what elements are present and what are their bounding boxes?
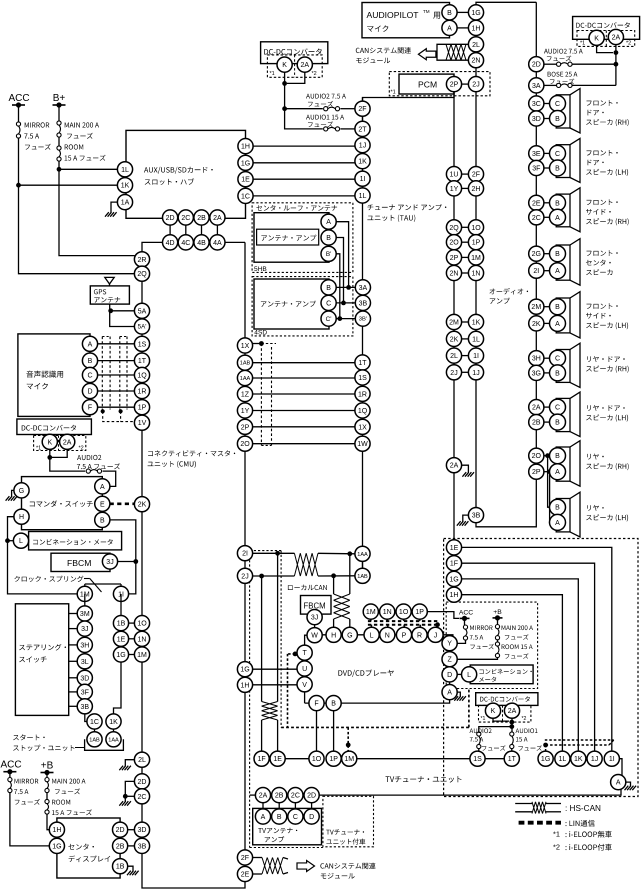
speaker pin C: [550, 145, 566, 161]
connector 1AA (TAU CAN): [355, 546, 370, 561]
wire pair 3F-B: [544, 167, 551, 169]
connector 1L (amp): [468, 331, 483, 346]
svg-text:C: C: [555, 151, 560, 158]
svg-text:2F: 2F: [358, 106, 366, 113]
svg-text:1E: 1E: [241, 177, 250, 184]
svg-text:2N: 2N: [450, 271, 459, 278]
svg-text:1O: 1O: [137, 621, 147, 628]
wire K/2A to fuse rail: [285, 72, 323, 129]
connector 1G (TV left): [237, 662, 252, 677]
pin T (DVD): [297, 645, 312, 660]
label local CAN: [288, 585, 327, 591]
FBCM box (local): [301, 596, 332, 615]
svg-text:1K: 1K: [358, 159, 367, 166]
connector 2P (CMU): [237, 419, 252, 434]
svg-text:A: A: [88, 341, 93, 348]
label TV tuner option: [326, 829, 364, 834]
ground at center display 1B: [127, 871, 139, 876]
wire CAN drop to 1E: [277, 553, 279, 701]
svg-text:1Q: 1Q: [137, 373, 147, 380]
svg-text:1K: 1K: [121, 183, 130, 190]
svg-text:3B': 3B': [359, 317, 367, 323]
pin L (meter right): [462, 667, 477, 682]
label clock spring: [14, 576, 83, 582]
svg-text:1AB: 1AB: [240, 361, 251, 367]
DC-DC converter box (bottom right): [476, 693, 538, 706]
svg-text:3A: 3A: [359, 285, 368, 292]
svg-text:1Y: 1Y: [450, 186, 459, 193]
svg-text:3J: 3J: [81, 626, 88, 633]
svg-text:4A: 4A: [213, 240, 222, 247]
wire 2P-1X: [252, 426, 355, 428]
label combination meter (left): [33, 539, 113, 545]
svg-text:Y: Y: [447, 641, 452, 648]
center roof antenna dashed box (5HB): [252, 203, 353, 273]
speaker pin A: [550, 464, 566, 480]
svg-text:1W: 1W: [357, 441, 368, 448]
label CAN system module (bottom): [320, 863, 375, 870]
connector 2I (CMU): [237, 546, 252, 561]
connector 1B: [113, 616, 128, 631]
svg-text:1G: 1G: [240, 667, 249, 674]
svg-text:1N: 1N: [472, 271, 481, 278]
svg-text:1Z: 1Z: [241, 392, 250, 399]
svg-text:3H: 3H: [80, 642, 89, 649]
pin C' (4SD): [321, 311, 336, 326]
svg-text:1H: 1H: [241, 682, 250, 689]
wire 1P to ACC (DVD): [427, 612, 459, 619]
wire B to 1I via FBCM junction: [110, 520, 136, 594]
wire A to ground (br): [626, 782, 631, 786]
svg-text:R: R: [417, 632, 422, 639]
pin A (5HB): [321, 214, 336, 229]
connector 1T: [134, 353, 149, 368]
fuse MAIN 200A (bottom): [45, 778, 49, 782]
svg-text:1I: 1I: [360, 176, 366, 183]
wire B-1G: [457, 11, 469, 13]
mic pin A: [82, 336, 97, 351]
wire 1Y-1Q: [252, 410, 355, 412]
svg-text:1U: 1U: [450, 172, 459, 179]
svg-text:F: F: [88, 405, 92, 412]
connector 2N (top): [468, 53, 483, 68]
wire 2E can: [252, 873, 262, 875]
TAU right rail: [453, 91, 455, 472]
wire 1G to 1K: [114, 662, 122, 715]
wire 2A fuse branches: [511, 718, 513, 732]
pin L: [13, 533, 28, 548]
ground at bottom right A: [625, 786, 637, 791]
ground at amp 3B: [457, 521, 469, 526]
stub 3B: [69, 705, 78, 707]
connector 1G (TV): [446, 571, 461, 586]
wire ACC fuse to Y: [464, 618, 466, 625]
connector 2O (CMU): [237, 436, 252, 451]
svg-text:3L: 3L: [81, 659, 89, 666]
fuse AUDIO2 (right): [557, 62, 561, 66]
label フロント・ センタ・ スピーカ: [587, 250, 618, 256]
svg-text:1J: 1J: [591, 756, 598, 763]
connector 2R: [134, 252, 149, 267]
label AUX/USB/SD hub: [144, 167, 213, 174]
svg-text:2D: 2D: [307, 793, 316, 800]
pin B (5HB): [321, 230, 336, 245]
svg-text:D: D: [447, 672, 452, 679]
connector 2B: [194, 210, 209, 225]
svg-text:*1: *1: [391, 90, 396, 96]
wire pair 2C-A: [544, 216, 551, 218]
shield around mic wires: [101, 337, 103, 410]
wire rear speaker bridge: [544, 455, 551, 457]
svg-text:2F: 2F: [241, 855, 249, 862]
wire 2J-1J pair: [461, 371, 468, 373]
connector 4B: [194, 235, 209, 250]
mic pin D: [82, 383, 97, 398]
wire pair 3E-C: [544, 152, 551, 154]
label DVD/CD player: [338, 670, 393, 677]
speaker pin B (rear LH): [550, 499, 566, 515]
connector 1N (DVD LIN): [380, 604, 395, 619]
dashed option bottom edge: [250, 847, 323, 849]
connector 2K: [134, 497, 149, 512]
antenna amp label box: [257, 229, 319, 245]
wire mic C-1Q: [97, 374, 134, 376]
svg-text:4SD: 4SD: [254, 330, 267, 337]
speaker pin C: [550, 96, 566, 112]
svg-text:+B: +B: [41, 761, 54, 772]
svg-text:2R: 2R: [138, 257, 147, 264]
wire G to ground: [12, 490, 15, 496]
svg-text:4C: 4C: [181, 240, 190, 247]
pin A (DVD): [442, 685, 457, 700]
svg-text:1N: 1N: [383, 609, 392, 616]
pin H: [14, 509, 29, 524]
wire 1G-U: [252, 668, 297, 670]
svg-text:1E: 1E: [117, 636, 126, 643]
zigzag local CAN: [294, 553, 318, 576]
svg-text:C: C: [555, 405, 560, 412]
speaker pin C: [550, 399, 566, 415]
ground at 2D/2C: [119, 801, 131, 806]
connector 2P (TAU right): [446, 250, 461, 265]
svg-text:1M: 1M: [366, 609, 376, 616]
svg-text:1V: 1V: [138, 420, 147, 427]
connector 1T (TAU): [355, 355, 370, 370]
wire 1E-1N: [128, 638, 134, 640]
shield dashed box (antenna lead): [260, 344, 262, 446]
wire 1H-V: [252, 684, 297, 686]
wire B+ vertical feed: [58, 105, 60, 121]
AUX/USB/SD card slot hub box: [126, 130, 246, 218]
connector 2P (PCM): [446, 77, 461, 92]
wire 2P-1M pair: [461, 256, 468, 258]
dashed option box K/2A (bottom right): [479, 705, 531, 722]
connector 1P: [134, 400, 149, 415]
zigzag CAN vertical pair: [334, 594, 350, 619]
connector 1I (clock spring): [113, 586, 128, 601]
wire D-L pair: [457, 673, 462, 675]
svg-text:1G: 1G: [116, 652, 125, 659]
TV tuner option dashed box: [323, 796, 374, 847]
pin 2D (center display): [113, 822, 128, 837]
pin C (TV ant): [288, 809, 303, 824]
connector 1X (TAU): [355, 419, 370, 434]
svg-text:1I: 1I: [473, 353, 479, 360]
wire mic D-1R: [97, 390, 134, 392]
svg-text:C: C: [293, 814, 298, 821]
pin F (DVD): [309, 696, 324, 711]
TV tuner dashed box: [444, 539, 638, 797]
svg-text:1B: 1B: [116, 864, 125, 871]
svg-text:B: B: [277, 814, 282, 821]
label DC-DC converter (TAU): [264, 48, 322, 54]
ground at commander G: [6, 496, 18, 501]
DC-DC converter box (left): [17, 419, 92, 435]
wire F to 1O: [316, 710, 318, 751]
LIN dashed bus above L..R: [368, 620, 438, 622]
pin B' (5HB): [321, 246, 336, 261]
svg-text:*1: *1: [270, 71, 275, 77]
svg-text:: HS-CAN: : HS-CAN: [565, 804, 601, 813]
wire 1K from AUX 1G: [253, 162, 355, 164]
connector 1L (TV bottom): [555, 751, 570, 766]
commander switch box: [22, 477, 103, 530]
connector 2A (TAU DC-DC): [297, 57, 312, 72]
wire 2C-4C: [185, 225, 187, 235]
dashed option box K/2A (top right): [577, 31, 635, 47]
wire B+ to 1L: [57, 167, 62, 172]
svg-text:2K: 2K: [532, 321, 541, 328]
connector 1Y (CMU): [237, 403, 252, 418]
pin B (4SD): [321, 280, 336, 295]
connector 1C: [238, 188, 253, 203]
speaker pin C: [550, 350, 566, 366]
svg-text:W: W: [311, 633, 318, 640]
stub 3F: [69, 691, 78, 693]
svg-text:2D: 2D: [138, 779, 147, 786]
svg-text:2L: 2L: [450, 353, 458, 360]
svg-text:1H: 1H: [450, 592, 459, 599]
connector 1T (TV bottom): [504, 751, 519, 766]
svg-text:3B: 3B: [138, 843, 147, 850]
fuse AUDIO1 15A (TAU): [324, 127, 328, 131]
wire 1AA-1AB link: [362, 561, 364, 569]
wire ACC to 1K: [16, 183, 21, 188]
speaker pin A: [550, 209, 566, 225]
label リヤ・スピーカ (LH): [587, 505, 604, 511]
connector 4A: [210, 235, 225, 250]
label MAIN/ROOM fuses (bottom): [52, 779, 85, 784]
connector 2O (TAU right): [446, 235, 461, 250]
svg-text:1G: 1G: [449, 576, 458, 583]
wire 3B to ground (amp): [463, 515, 469, 521]
svg-text:A: A: [616, 780, 621, 787]
connector 2T: [355, 121, 370, 136]
wire 1B to ground: [127, 866, 133, 871]
connector 1M (TV bottom): [342, 751, 357, 766]
connector 2B (TV ant): [272, 788, 287, 803]
connector K (bottom right): [485, 703, 500, 718]
svg-text:C: C: [555, 356, 560, 363]
speaker pin B: [550, 246, 566, 262]
svg-text:Z: Z: [447, 657, 452, 664]
svg-text:1K: 1K: [472, 320, 481, 327]
connector 3B' (antenna): [355, 311, 370, 326]
wire +B fuses to Z: [497, 618, 499, 625]
wire fuse to commander A: [103, 471, 116, 486]
svg-text:B: B: [555, 453, 560, 460]
svg-text:2I: 2I: [242, 551, 248, 558]
wire 2D long feed: [319, 789, 621, 795]
zigzag CAN pair to TV tuner: [262, 702, 278, 721]
connector 2K (chain): [529, 316, 544, 331]
svg-text:1S: 1S: [358, 375, 367, 382]
connector 2Q (TAU right): [446, 220, 461, 235]
svg-text:1F: 1F: [258, 756, 266, 763]
connector 2C: [178, 210, 193, 225]
connector 2J (TAU right): [446, 365, 461, 380]
svg-text:H: H: [331, 632, 336, 639]
wire can stubs: [283, 858, 288, 860]
pin 3H: [77, 637, 92, 652]
svg-text:2N: 2N: [472, 58, 481, 65]
wire 1G-1M: [128, 654, 134, 656]
label フロント・ ドア・ スピーカ (RH): [587, 100, 618, 106]
wire 1F right run: [462, 563, 595, 751]
svg-text:1G: 1G: [241, 160, 250, 167]
svg-text:2M: 2M: [449, 320, 459, 327]
fuse AUDIO2 (bottom right): [477, 732, 481, 736]
connector 2D: [163, 210, 178, 225]
wire 1I to 1B chain: [120, 594, 122, 658]
connector 1O (amp): [468, 220, 483, 235]
speaker リヤ・ドア・ スピーカ (LH): [556, 398, 570, 431]
svg-text:1M: 1M: [471, 255, 481, 262]
label TAU: [367, 204, 446, 210]
connector 1I (TAU): [355, 171, 370, 186]
svg-text:5A': 5A': [138, 324, 147, 331]
svg-text:3D: 3D: [80, 675, 89, 682]
wire 3B to 1C: [85, 714, 88, 722]
svg-text:3M: 3M: [80, 611, 90, 618]
svg-text:1T: 1T: [508, 756, 517, 763]
combination meter box (left): [29, 532, 122, 550]
svg-text:B: B: [88, 358, 93, 365]
connector 1Q: [134, 367, 149, 382]
wire CAN drop to H: [333, 576, 335, 594]
stub 3H: [69, 644, 78, 646]
label AUDIO2 7.5A fuse (left): [77, 455, 101, 460]
pin 1G (center display): [49, 838, 64, 853]
pin 3M: [77, 606, 92, 621]
svg-text:3B: 3B: [472, 513, 481, 520]
connector 2A (TAU bottom): [446, 458, 461, 473]
svg-text:L: L: [467, 672, 471, 679]
LIN dashed pair to 1G (TV): [545, 739, 614, 741]
wire B-3A: [336, 286, 356, 288]
wire mic A-1S: [97, 343, 134, 345]
wire 1Y-2H pair: [461, 187, 468, 189]
svg-text:+B: +B: [493, 609, 502, 616]
connector 2C (TV ant): [288, 788, 303, 803]
connector 1I (TV bottom): [604, 751, 619, 766]
wire 2F can: [252, 857, 262, 859]
wire 1I from AUX 1E: [253, 178, 355, 180]
connector 3H (chain): [529, 351, 544, 366]
svg-text:V: V: [302, 682, 307, 689]
svg-text:2F: 2F: [472, 172, 480, 179]
wire B to 3B line: [336, 238, 344, 303]
wire 2B-4B: [201, 225, 203, 235]
pin L (DVD): [364, 627, 379, 642]
label antenna amp (5HB): [261, 235, 316, 241]
antenna amp box (4SD): [254, 279, 329, 329]
connector 3D (rail): [134, 822, 149, 837]
svg-text:1L: 1L: [121, 167, 129, 174]
dashed LIN horizontal run: [281, 726, 469, 728]
svg-text:2A: 2A: [612, 35, 621, 42]
svg-text:1S: 1S: [473, 756, 482, 763]
connector 2A (bottom right): [504, 703, 519, 718]
connector 2J (PCM): [468, 77, 483, 92]
speaker フロント・ サイド・ スピーカ (RH): [556, 194, 570, 227]
DC-DC converter box (top right): [573, 17, 640, 40]
connector 1K: [117, 178, 132, 193]
label GPS antenna: [94, 289, 106, 294]
wire 2D-D stub: [311, 802, 313, 809]
svg-text:A: A: [555, 520, 560, 527]
connector 1K (TV bottom): [571, 751, 586, 766]
label フロント・ サイド・ スピーカ (RH): [587, 199, 618, 205]
svg-text:2K: 2K: [138, 502, 147, 509]
svg-text:1O: 1O: [399, 609, 409, 616]
svg-text:2A: 2A: [450, 463, 459, 470]
speaker リヤ・ドア・ スピーカ (RH): [556, 350, 570, 383]
connector 2D (TV ant): [304, 788, 319, 803]
wire H down to 1M: [8, 517, 78, 594]
pin 3B: [77, 699, 92, 714]
connector 2O (chain): [529, 448, 544, 463]
svg-text:C: C: [87, 373, 92, 380]
connector 4D: [163, 235, 178, 250]
svg-text:3H: 3H: [532, 356, 541, 363]
pin 3D: [77, 670, 92, 685]
svg-text:2B: 2B: [197, 215, 206, 222]
pin 3J (local FBCM): [307, 610, 322, 625]
connector 1O: [134, 616, 149, 631]
connector 1R (TAU): [355, 386, 370, 401]
connector 2D (chain): [529, 57, 544, 72]
svg-text:2A: 2A: [301, 62, 310, 69]
speaker pin B: [550, 448, 566, 464]
fuse MIRROR 7.5A: [16, 122, 20, 126]
connector 2K (TAU right): [446, 331, 461, 346]
wire pair 2K-A: [544, 322, 551, 324]
connector 2L (top): [468, 37, 483, 52]
svg-text:1S: 1S: [138, 341, 147, 348]
wire left DC-DC to AUDIO2 fuse: [50, 449, 85, 471]
ground at 2L: [119, 766, 131, 771]
connector 5A: [134, 303, 149, 318]
svg-text:L: L: [370, 632, 374, 639]
connector 5A': [134, 319, 149, 334]
svg-text:2A: 2A: [213, 215, 222, 222]
svg-text:1P: 1P: [329, 756, 338, 763]
connector 2P (chain): [529, 464, 544, 479]
LIN stub 1N: [386, 619, 388, 621]
fuse BOSE 25A: [557, 83, 561, 87]
svg-text:B: B: [326, 285, 331, 292]
